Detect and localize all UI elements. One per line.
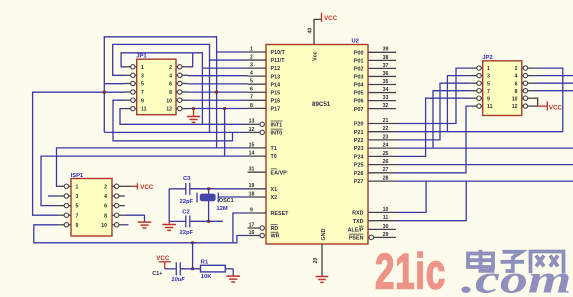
svg-text:VCC: VCC — [156, 255, 170, 262]
svg-text:RD: RD — [271, 226, 279, 232]
wire riser P23 to JP2.7 — [433, 91, 471, 148]
svg-text:P23: P23 — [354, 146, 364, 152]
resistor R1 10K — [201, 260, 234, 280]
wire INT0 long line — [104, 131, 247, 133]
svg-text:29: 29 — [383, 232, 389, 238]
pin 35 P04 of U2 (right) — [354, 79, 396, 89]
ISP1 pin 5 — [58, 203, 78, 209]
wire JP1 pin4 to IC pin4 — [188, 75, 248, 77]
junction RC row — [191, 267, 194, 270]
svg-text:11: 11 — [487, 104, 493, 110]
svg-text:PSEN: PSEN — [349, 236, 364, 242]
JP2 pin 7 — [471, 89, 490, 95]
ground symbol (below U2 pin 20) — [316, 277, 329, 283]
ISP1 pin 3 — [58, 194, 78, 200]
svg-text:P00: P00 — [354, 50, 364, 56]
svg-text:VCC: VCC — [549, 105, 563, 112]
pin 9 RESET of U2 (left) — [248, 207, 290, 217]
connector JP1 body — [137, 59, 176, 114]
JP2 pin 12 — [512, 104, 534, 110]
wire rail down to RC row — [192, 243, 194, 269]
wire JP1 pin7 long line to ISP1.7 — [33, 92, 125, 215]
svg-text:ALE/P: ALE/P — [348, 228, 364, 234]
wire middle rectangle above JP1 to IC pin2 — [113, 44, 210, 132]
svg-text:RESET: RESET — [271, 211, 290, 217]
svg-text:P15: P15 — [271, 90, 281, 96]
svg-text:11: 11 — [383, 215, 389, 221]
svg-text:P25: P25 — [354, 163, 364, 169]
pin 8 P17 of U2 (left) — [248, 103, 281, 113]
JP1 pin 10 — [166, 98, 188, 104]
svg-text:JP2: JP2 — [482, 55, 492, 61]
wire riser P21 to JP2.2 — [534, 68, 563, 132]
svg-text:P27: P27 — [354, 179, 364, 185]
wire ISP1.10 stub — [125, 224, 129, 226]
svg-text:U2: U2 — [352, 39, 359, 45]
svg-text:GND: GND — [321, 228, 327, 240]
svg-text:INT1: INT1 — [271, 122, 283, 128]
logo hanzi dian — [468, 250, 493, 271]
svg-text:8: 8 — [104, 213, 107, 219]
JP2 pin 2 — [515, 66, 534, 72]
wire net P27 long line — [396, 180, 573, 182]
svg-text:5: 5 — [76, 204, 79, 210]
svg-text:6: 6 — [104, 204, 107, 210]
JP2 pin 9 — [471, 96, 490, 102]
svg-text:P11/T: P11/T — [271, 58, 286, 64]
junction rail / reset divider — [191, 241, 194, 244]
ISP1 pin 1 — [58, 184, 78, 190]
svg-text:26: 26 — [383, 159, 389, 165]
wire net P23 long line — [396, 147, 573, 149]
svg-text:P02: P02 — [354, 67, 364, 73]
svg-text:6: 6 — [250, 87, 253, 93]
pin 37 P02 of U2 (right) — [354, 63, 396, 73]
pin 7 P16 of U2 (left) — [248, 95, 281, 105]
wire ISP1.2 to VCC — [125, 185, 132, 187]
ground symbol (crystal caps) — [162, 221, 176, 230]
JP2 pin 3 — [471, 73, 490, 79]
pin 10 RXD of U2 (right) — [352, 207, 396, 217]
pin 20 GND of U2 (bottom) — [313, 244, 322, 276]
svg-text:12: 12 — [512, 104, 518, 110]
wire branch to IC pin2 — [210, 59, 248, 61]
svg-text:5: 5 — [141, 82, 144, 88]
wire JP1 pin11 to INT1 — [120, 109, 248, 125]
JP2 pin 6 — [515, 81, 534, 87]
crystal Y1 12M — [197, 193, 234, 213]
svg-text:35: 35 — [383, 79, 389, 85]
svg-text:16: 16 — [249, 230, 255, 236]
svg-text:9: 9 — [250, 207, 253, 213]
svg-text:P04: P04 — [354, 83, 364, 89]
svg-text:P12: P12 — [271, 66, 281, 72]
svg-text:23: 23 — [383, 134, 389, 140]
wire ISP1.8 to ground — [125, 215, 145, 222]
svg-text:5: 5 — [250, 79, 253, 85]
svg-text:39: 39 — [383, 47, 389, 53]
svg-text:34: 34 — [383, 87, 389, 93]
svg-text:P22: P22 — [354, 138, 364, 144]
ground symbol (ISP1 pin8) — [138, 222, 152, 228]
pin 11 TXD of U2 (right) — [353, 215, 396, 225]
svg-text:9: 9 — [487, 96, 490, 102]
svg-text:22: 22 — [383, 126, 389, 132]
JP2 pin 10 — [512, 96, 534, 102]
svg-text:P10/T: P10/T — [271, 50, 286, 56]
JP1 pin 8 — [169, 90, 188, 96]
wire RXD riser — [396, 181, 426, 212]
ISP1 pin 8 — [104, 213, 125, 219]
power VCC symbol (reset RC) — [156, 255, 171, 269]
wire X2 line — [218, 196, 247, 198]
wire branch to IC pin1 — [217, 51, 248, 53]
pin 36 P03 of U2 (right) — [354, 71, 396, 81]
pin 23 P22 of U2 (right) — [354, 134, 396, 144]
svg-text:18: 18 — [249, 191, 255, 197]
pin 30 ALE/P of U2 (right) — [348, 224, 396, 234]
svg-text:2: 2 — [515, 66, 518, 72]
pin 12 INT0 of U2 (left) — [248, 127, 283, 137]
junction pin12 rail / riser — [223, 107, 226, 110]
wire net P24-JP2.9 — [396, 98, 471, 156]
pin 5 P14 of U2 (left) — [248, 79, 281, 89]
svg-text:P16: P16 — [271, 98, 281, 104]
svg-text:22pF: 22pF — [180, 199, 194, 205]
wire net JP1.1 / U2 pin1 (outer loop) — [104, 83, 124, 85]
wire JP1 pin12 ground rail to IC pin8 — [188, 108, 248, 110]
wire X1 line / C3 row — [169, 188, 247, 190]
JP1 pin 6 — [169, 81, 188, 87]
wire JP1 pin10 to IC pin7 — [188, 99, 248, 101]
svg-text:EA/VP: EA/VP — [271, 170, 288, 176]
svg-text:21ic: 21ic — [375, 244, 446, 297]
pin 21 P20 of U2 (right) — [354, 118, 396, 128]
svg-text:7: 7 — [250, 95, 253, 101]
wire bottom rail to U2 WR — [34, 236, 248, 243]
connector ISP1 body — [71, 179, 112, 237]
svg-text:10K: 10K — [201, 274, 212, 280]
wire JP2.8 to edge — [534, 90, 573, 92]
svg-text:10uF: 10uF — [171, 277, 185, 283]
svg-text:4: 4 — [250, 71, 253, 77]
JP1 pin 5 — [125, 81, 145, 87]
svg-text:1: 1 — [487, 66, 490, 72]
wire JP2.6 to edge — [534, 82, 573, 84]
junction JP1 pin8 / outer vertical — [215, 91, 218, 94]
svg-text:2: 2 — [104, 184, 107, 190]
svg-text:1: 1 — [250, 46, 253, 52]
svg-text:6: 6 — [169, 82, 172, 88]
svg-text:3: 3 — [76, 194, 79, 200]
pin 17 RD of U2 (left) — [248, 222, 279, 232]
JP1 pin 4 — [169, 73, 188, 79]
wire ISP1.9 to bottom rail — [34, 225, 58, 244]
svg-text:10: 10 — [383, 207, 389, 213]
wire JP2.10 hook to pin12 — [534, 98, 538, 106]
ISP1 pin 7 — [58, 213, 78, 219]
IC U2 89C51 microcontroller body — [266, 45, 368, 245]
wire cap common vertical + ground — [168, 189, 170, 222]
JP1 pin 7 — [125, 90, 145, 96]
wire C2 row — [169, 220, 223, 222]
svg-text:37: 37 — [383, 63, 389, 69]
svg-text:ISP1: ISP1 — [71, 173, 84, 179]
pin 4 P13 of U2 (left) — [248, 71, 281, 81]
svg-text:OSC1: OSC1 — [219, 198, 234, 204]
pin 40 VCC of U2 (top) — [308, 19, 322, 44]
svg-text:VCC: VCC — [324, 15, 338, 22]
svg-text:5: 5 — [487, 81, 490, 87]
svg-text:17: 17 — [249, 222, 255, 228]
JP1 pin 3 — [125, 73, 145, 79]
svg-text:C1+: C1+ — [152, 271, 162, 277]
pin 34 P05 of U2 (right) — [354, 87, 396, 97]
wire TXD riser — [396, 181, 466, 221]
svg-text:9: 9 — [141, 98, 144, 104]
wire ISP1.3 stub — [48, 195, 58, 197]
svg-text:14: 14 — [249, 151, 255, 157]
svg-text:P05: P05 — [354, 91, 364, 97]
wire net P26-JP2.11 — [396, 106, 471, 173]
svg-text:20: 20 — [313, 258, 319, 264]
JP2 pin 4 — [515, 73, 534, 79]
wire inner rectangle above JP1 to IC pin3 — [121, 53, 202, 125]
svg-text:11: 11 — [141, 107, 147, 113]
svg-text:24: 24 — [383, 143, 389, 149]
svg-text:2: 2 — [169, 65, 172, 71]
ISP1 pin 6 — [104, 203, 125, 209]
pin 13 INT1 of U2 (left) — [248, 119, 283, 129]
power VCC symbol (top of U2) — [322, 13, 338, 23]
svg-text:1: 1 — [141, 65, 144, 71]
svg-text:RXD: RXD — [352, 211, 363, 217]
svg-text:7: 7 — [487, 89, 490, 95]
wire net P20-JP2.1 — [396, 68, 471, 123]
svg-text:P13: P13 — [271, 74, 281, 80]
svg-text:10: 10 — [166, 98, 172, 104]
wire JP2.12 to VCC — [534, 105, 538, 107]
pin 16 WR of U2 (left) — [248, 230, 280, 240]
pin 33 P06 of U2 (right) — [354, 95, 396, 105]
svg-text:25: 25 — [383, 151, 389, 157]
svg-text:P24: P24 — [354, 155, 364, 161]
svg-text:4: 4 — [104, 194, 107, 200]
JP2 pin 1 — [471, 66, 490, 72]
ISP1 pin 2 — [104, 184, 125, 190]
svg-text:10: 10 — [512, 96, 518, 102]
svg-text:32: 32 — [383, 103, 389, 109]
ISP1 pin 10 — [101, 223, 125, 229]
wire outer rectangle above JP1 to IC pin1 — [104, 37, 216, 148]
JP1 pin 1 — [125, 65, 145, 71]
pin 28 P27 of U2 (right) — [354, 176, 396, 186]
wire ISP1.1 to U2 T1 — [57, 148, 248, 186]
JP1 pin 2 — [169, 65, 188, 71]
pin 14 T0 of U2 (left) — [248, 151, 277, 161]
svg-text:10: 10 — [101, 223, 107, 229]
ISP1 pin 9 — [58, 223, 78, 229]
svg-text:8: 8 — [515, 89, 518, 95]
junction JP1 pin7 / outer vertical — [103, 91, 106, 94]
pin 27 P26 of U2 (right) — [354, 167, 396, 177]
svg-text:4: 4 — [515, 74, 518, 80]
pin 39 P00 of U2 (right) — [354, 47, 396, 57]
pin 19 X1 of U2 (left) — [248, 183, 278, 193]
svg-text:P21: P21 — [354, 130, 364, 136]
wire JP1 pin6 to IC pin5 — [188, 83, 248, 85]
svg-text:P07: P07 — [354, 107, 364, 113]
wire crystal center vertical — [208, 189, 210, 222]
logo hanzi wang — [531, 252, 564, 274]
svg-text:12: 12 — [249, 127, 255, 133]
wire branch to IC pin3 — [202, 67, 247, 69]
svg-text:40: 40 — [308, 28, 314, 34]
svg-text:Vcc: Vcc — [313, 51, 319, 61]
svg-text:T0: T0 — [271, 154, 277, 160]
svg-text:VCC: VCC — [140, 184, 154, 191]
junction C2 row — [207, 220, 210, 223]
svg-text:R1: R1 — [201, 260, 209, 266]
pin 2 P11/T of U2 (left) — [248, 54, 286, 64]
svg-text:27: 27 — [383, 167, 389, 173]
JP2 pin 11 — [471, 104, 493, 110]
wire net P21 long line — [396, 131, 563, 133]
svg-text:2: 2 — [250, 54, 253, 60]
ground symbol (R1) — [226, 269, 240, 282]
svg-text:C2: C2 — [182, 210, 189, 216]
svg-text:31: 31 — [249, 167, 255, 173]
svg-text:36: 36 — [383, 71, 389, 77]
svg-text:3: 3 — [487, 74, 490, 80]
svg-text:28: 28 — [383, 176, 389, 182]
pin 29 PSEN of U2 (right) — [349, 232, 396, 242]
svg-text:P01: P01 — [354, 58, 364, 64]
pin 24 P23 of U2 (right) — [354, 143, 396, 153]
svg-text:P03: P03 — [354, 75, 364, 81]
svg-text:30: 30 — [383, 224, 389, 230]
capacitor C2 — [169, 210, 223, 237]
svg-text:8: 8 — [250, 103, 253, 109]
pin 26 P25 of U2 (right) — [354, 159, 396, 169]
svg-text:X2: X2 — [271, 195, 278, 201]
JP1 pin 11 — [125, 106, 147, 112]
svg-text:4: 4 — [169, 73, 172, 79]
svg-text:33: 33 — [383, 95, 389, 101]
svg-text:TXD: TXD — [353, 219, 364, 225]
svg-text:15: 15 — [249, 142, 255, 148]
svg-text:38: 38 — [383, 55, 389, 61]
svg-text:JP1: JP1 — [136, 54, 147, 60]
svg-text:7: 7 — [141, 90, 144, 96]
wire JP2.4 to edge — [534, 75, 573, 77]
svg-text:3: 3 — [141, 73, 144, 79]
svg-text:1: 1 — [76, 184, 79, 190]
pin 32 P07 of U2 (right) — [354, 103, 396, 113]
power VCC symbol (ISP1 pin2) — [137, 183, 153, 191]
svg-text:6: 6 — [515, 81, 518, 87]
pin 3 P12 of U2 (left) — [248, 63, 281, 73]
svg-text:21: 21 — [383, 118, 389, 124]
wire JP1 pin2 riser — [188, 53, 193, 67]
svg-text:7: 7 — [76, 213, 79, 219]
svg-text:22pF: 22pF — [180, 230, 194, 236]
wire vertical from pin12 rail to T0 line — [224, 109, 226, 157]
svg-text:WR: WR — [271, 234, 280, 240]
junction C3 / X1 — [207, 187, 210, 190]
wire net P22-JP2.5 — [396, 83, 471, 140]
wire net P25 long line — [396, 164, 573, 166]
svg-text:9: 9 — [76, 223, 79, 229]
svg-text:8: 8 — [169, 90, 172, 96]
svg-text:T1: T1 — [271, 146, 277, 152]
ground symbol (below JP1 pin12) — [187, 109, 201, 123]
capacitor C1 10uF — [152, 262, 200, 283]
pin 38 P01 of U2 (right) — [354, 55, 396, 65]
svg-text:12: 12 — [166, 107, 172, 113]
junction ground tap on JP1 pin12 wire — [192, 107, 195, 110]
svg-text:12M: 12M — [216, 206, 227, 212]
wire JP1 pin9 branch to INT0 — [113, 100, 233, 141]
svg-text:3: 3 — [250, 63, 253, 69]
pin 18 X2 of U2 (left) — [248, 191, 278, 201]
wire ISP1.5 to U2 T0 — [41, 156, 248, 206]
svg-text:P26: P26 — [354, 171, 364, 177]
svg-text:89C51: 89C51 — [312, 101, 331, 108]
JP2 pin 5 — [471, 81, 490, 87]
svg-text:P20: P20 — [354, 122, 364, 128]
pin 22 P21 of U2 (right) — [354, 126, 396, 136]
pin 25 P24 of U2 (right) — [354, 151, 396, 161]
JP1 pin 12 — [166, 106, 188, 112]
svg-text:P06: P06 — [354, 99, 364, 105]
power VCC symbol (JP2 pin12) — [547, 101, 562, 111]
wire JP1 pin8 to IC pin6 — [188, 91, 248, 93]
connector JP2 body — [483, 61, 522, 116]
svg-text:X1: X1 — [271, 187, 278, 193]
svg-text:13: 13 — [249, 119, 255, 125]
wire RESET to bottom rail — [233, 213, 248, 243]
svg-text:19: 19 — [249, 183, 255, 189]
svg-text:P14: P14 — [271, 82, 281, 88]
wire riser P21 to JP2.3 — [447, 76, 470, 132]
svg-text:C3: C3 — [183, 176, 191, 182]
ISP1 pin 4 — [104, 194, 125, 200]
pin 15 T1 of U2 (left) — [248, 142, 277, 152]
svg-text:INT0: INT0 — [271, 131, 283, 137]
logo hanzi zi — [501, 252, 525, 271]
svg-text:P17: P17 — [271, 106, 281, 112]
pin 1 P10/T of U2 (left) — [248, 46, 286, 56]
pin 31 EA/VP of U2 (left) — [248, 167, 288, 177]
JP2 pin 8 — [515, 89, 534, 95]
JP1 pin 9 — [125, 98, 145, 104]
pin 6 P15 of U2 (left) — [248, 87, 281, 97]
capacitor C3 — [169, 176, 214, 205]
